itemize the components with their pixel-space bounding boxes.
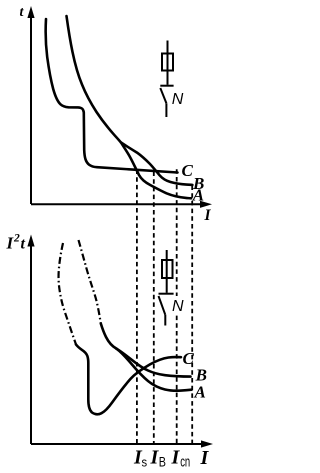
bottom plot: bathtub let-through curve rising to C bbox=[76, 345, 181, 415]
top fuse symbol wire bbox=[167, 41, 169, 54]
bottom plot y-axis I2t bbox=[30, 240, 32, 444]
bottom fuse wire bbox=[166, 250, 168, 260]
bottom switch contact bar bbox=[159, 293, 174, 295]
dashed vertical line Icn bbox=[176, 169, 178, 443]
bottom switch wire bbox=[164, 315, 166, 326]
bottom plot: right dash-dot prospective curve bbox=[79, 240, 101, 324]
dashed vertical line right bbox=[191, 186, 193, 444]
svg-text:N: N bbox=[172, 298, 184, 315]
bottom fuse F bbox=[162, 260, 173, 278]
top plot: breaker stepped curve ending at C bbox=[46, 19, 178, 173]
bottom plot x-axis I bbox=[31, 443, 206, 445]
top plot: curve branch B bbox=[121, 143, 192, 185]
svg-text:A: A bbox=[192, 185, 204, 204]
svg-text:I: I bbox=[200, 447, 210, 469]
top plot: fuse curve main descending (to A) bbox=[67, 16, 192, 198]
bottom plot: descending solid continuation to fork bbox=[101, 324, 117, 349]
top switch N blade bbox=[160, 88, 166, 103]
svg-text:N: N bbox=[172, 91, 184, 108]
svg-text:2: 2 bbox=[13, 233, 20, 245]
bottom fuse symbol white backing bbox=[158, 296, 184, 313]
top plot x-axis I bbox=[31, 203, 205, 205]
svg-text:I: I bbox=[171, 447, 181, 469]
svg-text:C: C bbox=[182, 161, 194, 180]
top switch wire bbox=[165, 103, 167, 117]
svg-text:I: I bbox=[204, 207, 212, 224]
dashed vertical line IB bbox=[153, 172, 155, 444]
bottom plot: branch A bbox=[117, 349, 192, 391]
dashed vertical line Is bbox=[136, 170, 138, 444]
svg-text:t: t bbox=[20, 5, 25, 20]
bottom switch blade bbox=[159, 296, 166, 315]
top plot y-axis t bbox=[30, 12, 32, 204]
bottom plot: branch B bbox=[117, 349, 191, 377]
svg-text:cn: cn bbox=[180, 454, 190, 471]
svg-text:s: s bbox=[142, 455, 148, 470]
svg-text:B: B bbox=[159, 454, 166, 470]
svg-text:C: C bbox=[183, 349, 195, 368]
label N bottom bbox=[171, 299, 183, 312]
top fuse F bbox=[162, 54, 173, 71]
svg-text:A: A bbox=[194, 382, 206, 401]
svg-text:t: t bbox=[21, 236, 26, 253]
top switch N contact bar bbox=[160, 85, 173, 87]
bottom plot: left dash-dot prospective curve bbox=[59, 243, 76, 345]
